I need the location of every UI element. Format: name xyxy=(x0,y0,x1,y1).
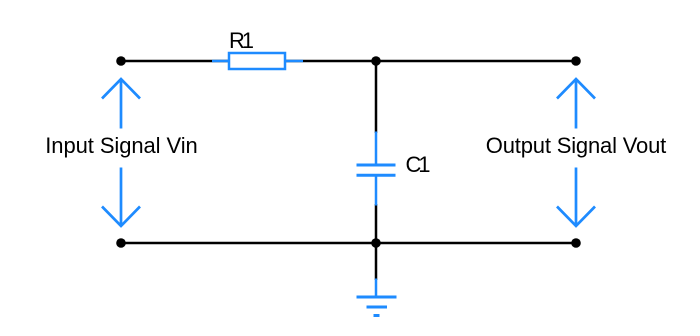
svg-text:Input Signal Vin: Input Signal Vin xyxy=(45,133,198,158)
svg-text:Output Signal Vout: Output Signal Vout xyxy=(486,133,667,158)
svg-text:R1: R1 xyxy=(229,28,254,53)
svg-text:C1: C1 xyxy=(406,152,431,177)
